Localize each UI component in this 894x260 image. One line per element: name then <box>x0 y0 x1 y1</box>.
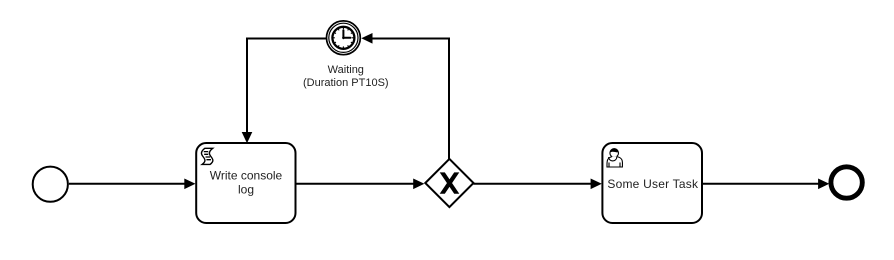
wire corner to timer <box>370 38 450 40</box>
gateway X marker <box>440 172 460 193</box>
shoulders <box>607 157 622 167</box>
wire Write console log to gateway <box>296 183 415 185</box>
clock ticks <box>333 28 353 48</box>
task Some User Task <box>602 143 702 223</box>
script icon <box>201 148 212 164</box>
gateway X (exclusive) <box>425 159 473 207</box>
wire gateway to Some User Task <box>474 183 593 185</box>
wire start to Write console log <box>69 183 186 185</box>
clock hands <box>343 30 351 38</box>
task Write console log <box>196 143 295 223</box>
user icon <box>607 148 622 167</box>
svg-text:(Duration PT10S): (Duration PT10S) <box>303 77 389 89</box>
wire gateway up to corner <box>448 38 450 160</box>
collar <box>609 157 617 161</box>
wire corner down to task top <box>246 38 248 135</box>
svg-text:Write console: Write console <box>210 168 283 182</box>
wire Some User Task to end <box>702 183 820 185</box>
head <box>610 149 619 158</box>
arrowhead into gateway <box>413 179 424 190</box>
arrowhead into end <box>818 179 829 190</box>
timer intermediate event <box>327 21 361 55</box>
svg-text:Waiting: Waiting <box>328 64 364 76</box>
svg-text:log: log <box>238 183 254 197</box>
arrowhead into Some User Task <box>591 179 602 190</box>
arrowhead into timer <box>361 33 372 44</box>
svg-text:Some User Task: Some User Task <box>607 177 699 191</box>
arrowhead into Write console log <box>184 179 195 190</box>
wire timer to corner above task <box>246 38 327 40</box>
suspenders <box>608 163 610 167</box>
end event <box>831 167 862 198</box>
arrowhead into task top <box>242 132 253 143</box>
hair <box>610 148 619 152</box>
start event <box>33 167 68 202</box>
